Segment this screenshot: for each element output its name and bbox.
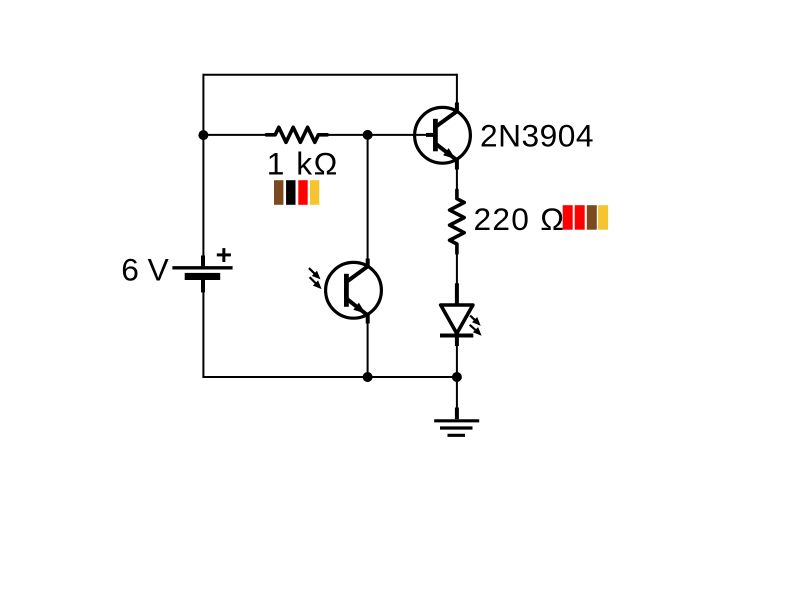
svg-text:6 V: 6 V bbox=[121, 252, 169, 288]
R2 color band gold bbox=[598, 205, 608, 230]
phototransistor Q2 bbox=[326, 259, 382, 324]
svg-text:220 Ω: 220 Ω bbox=[474, 201, 565, 237]
wire LED to bottom node bbox=[456, 345, 458, 377]
wire right vertical between Q1 and R2 bbox=[456, 169, 458, 191]
LED D1 bbox=[440, 283, 473, 346]
wire base horizontal right bbox=[328, 134, 428, 136]
junction node dot bottom right bbox=[452, 372, 462, 382]
wire right vertical between R2 and LED bbox=[456, 253, 458, 284]
ground bbox=[434, 408, 479, 436]
wire base horizontal left bbox=[203, 134, 265, 136]
battery BT1 bbox=[172, 248, 232, 292]
wire mid vertical upper bbox=[367, 135, 369, 259]
R2 color band red 2 bbox=[575, 205, 585, 230]
light arrow into Q2 upper bbox=[309, 268, 321, 279]
wire top horizontal bbox=[203, 74, 457, 76]
junction node dot mid bbox=[363, 130, 373, 140]
R2 color band brown bbox=[587, 205, 597, 230]
junction node dot bottom mid bbox=[363, 372, 373, 382]
light arrow out of LED lower bbox=[470, 325, 482, 336]
light arrow out of LED upper bbox=[470, 316, 481, 326]
light arrow into Q2 lower bbox=[310, 277, 322, 289]
wire bottom horizontal bbox=[203, 376, 457, 378]
wire right vertical top bbox=[456, 74, 458, 103]
R1 color band brown bbox=[274, 180, 283, 205]
resistor R1 1k bbox=[266, 127, 327, 142]
junction node dot left bbox=[198, 130, 208, 140]
wire mid vertical lower bbox=[367, 323, 369, 377]
svg-text:1 kΩ: 1 kΩ bbox=[267, 146, 338, 182]
R2 color band red 1 bbox=[563, 205, 573, 230]
wire node to ground bbox=[456, 377, 458, 408]
R1 color band black bbox=[286, 180, 295, 205]
svg-text:2N3904: 2N3904 bbox=[480, 118, 594, 154]
resistor R2 220 bbox=[450, 190, 465, 253]
R1 color band red bbox=[298, 180, 307, 205]
transistor Q1 2N3904 bbox=[415, 103, 471, 170]
wire left vertical lower bbox=[202, 292, 204, 378]
R1 color band gold bbox=[310, 180, 319, 205]
wire left vertical upper bbox=[202, 74, 204, 256]
